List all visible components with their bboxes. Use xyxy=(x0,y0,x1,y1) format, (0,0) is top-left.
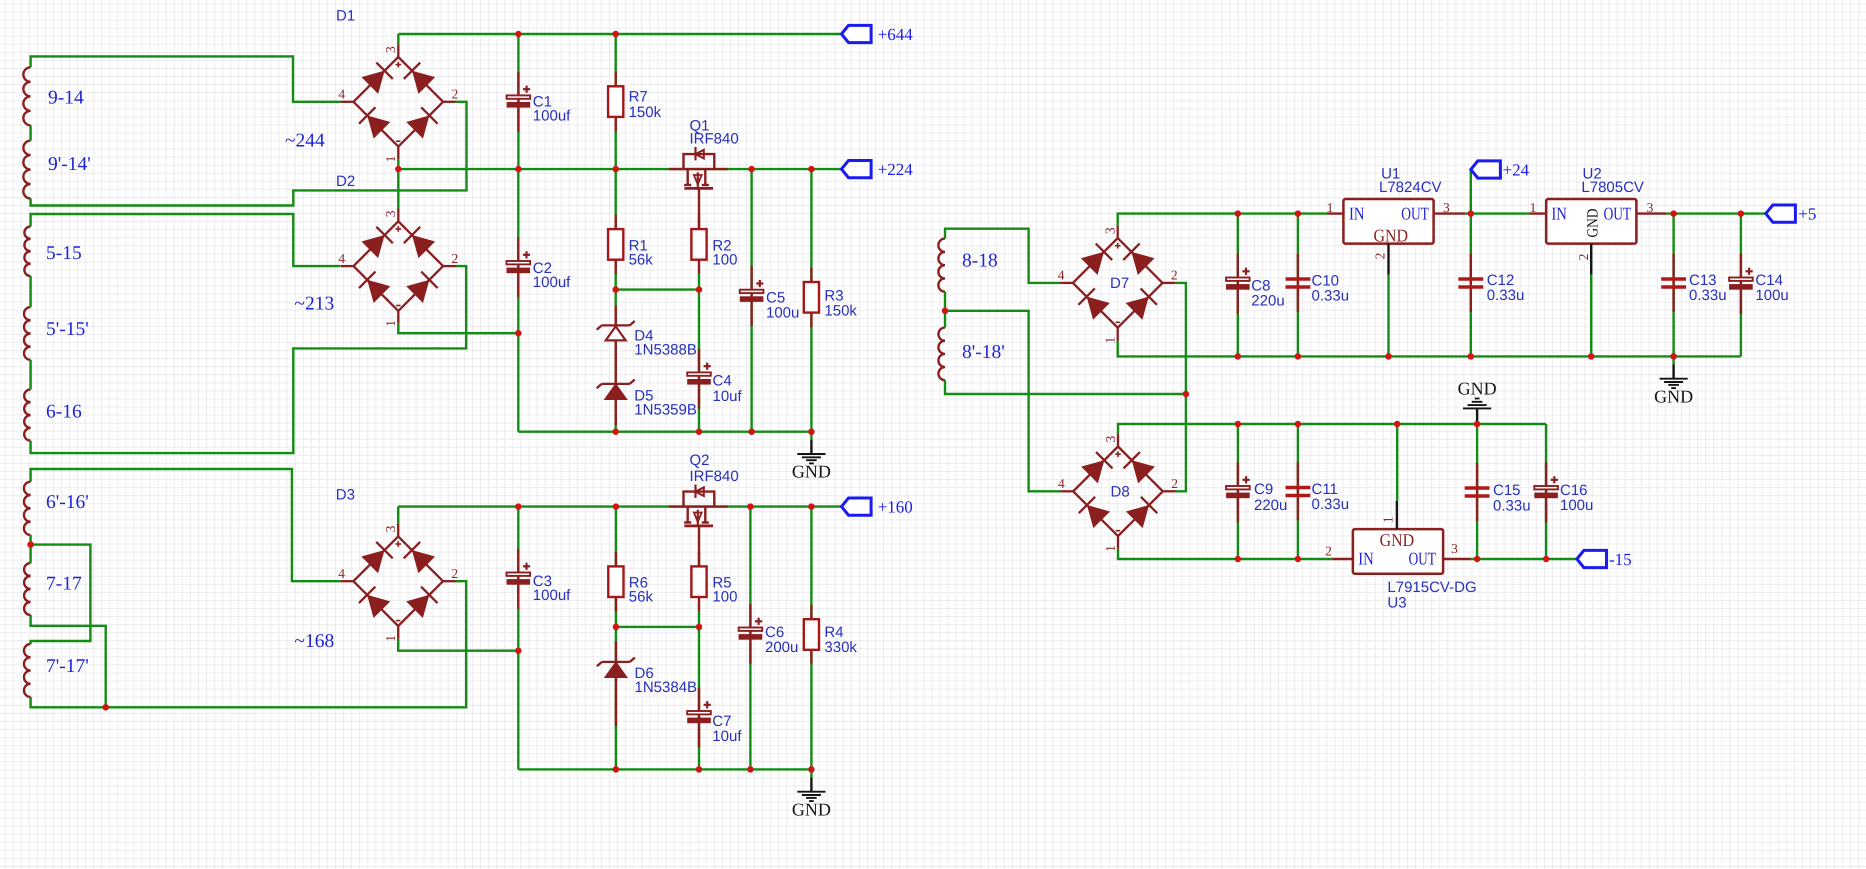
svg-text:100u: 100u xyxy=(766,305,799,322)
svg-text:4: 4 xyxy=(338,566,345,581)
wire R6/R5 junction link xyxy=(616,626,699,628)
svg-text:1: 1 xyxy=(1327,200,1334,215)
capacitor C9 xyxy=(1226,462,1287,522)
wire 6'-16' top to D3 pin4 xyxy=(31,469,341,581)
svg-text:330k: 330k xyxy=(824,639,857,656)
GND rail upper section xyxy=(518,431,811,433)
zener D6 1N5384B xyxy=(597,658,697,696)
+224 rail xyxy=(398,168,841,170)
svg-text:U3: U3 xyxy=(1387,595,1406,612)
svg-text:GND: GND xyxy=(1584,209,1601,238)
svg-text:D8: D8 xyxy=(1111,484,1130,501)
wire +224 to D2 pin3 xyxy=(397,169,399,208)
junction C6 top xyxy=(747,503,754,510)
svg-text:8-18: 8-18 xyxy=(962,251,998,272)
svg-text:2: 2 xyxy=(1325,544,1332,559)
svg-text:4: 4 xyxy=(1058,476,1065,491)
wire C9 column xyxy=(1237,424,1239,559)
winding 7'-17' xyxy=(24,644,89,697)
bridge rectifier D7 xyxy=(1058,225,1178,343)
svg-text:IN: IN xyxy=(1551,203,1567,223)
junction U1 gnd xyxy=(1385,353,1392,360)
junction R1 bottom xyxy=(612,286,619,293)
transistor Q1 IRF840 xyxy=(669,118,739,189)
power flag -15 xyxy=(1577,550,1632,569)
resistor R4 xyxy=(804,605,858,665)
svg-text:~168: ~168 xyxy=(294,631,334,652)
wire C7 column xyxy=(698,627,700,770)
junction C11 bottom xyxy=(1295,556,1302,563)
svg-text:0.33u: 0.33u xyxy=(1312,288,1350,305)
capacitor C4 xyxy=(687,349,742,409)
svg-text:4: 4 xyxy=(1058,268,1065,283)
wire C10 column xyxy=(1297,214,1299,357)
svg-text:3: 3 xyxy=(1103,435,1118,442)
resistor R3 xyxy=(804,268,858,328)
winding 9-14 (T1 primary section) xyxy=(23,67,84,125)
junction C13 top xyxy=(1670,210,1677,217)
junction C8 bottom xyxy=(1235,353,1242,360)
capacitor C13 xyxy=(1661,254,1726,312)
junction C5 top xyxy=(748,166,755,173)
junction D3 pin1 / C3 xyxy=(515,647,522,654)
svg-text:220u: 220u xyxy=(1251,293,1284,310)
wire C13 column xyxy=(1672,214,1674,357)
svg-text:OUT: OUT xyxy=(1401,203,1429,223)
capacitor C16 xyxy=(1534,462,1593,522)
junction R5 bottom xyxy=(696,624,703,631)
svg-text:1: 1 xyxy=(1530,200,1537,215)
wire C6 column xyxy=(749,507,751,770)
wire U3 gnd riser xyxy=(1396,424,1398,501)
svg-text:~244: ~244 xyxy=(285,131,325,152)
svg-text:2: 2 xyxy=(452,251,459,266)
svg-text:3: 3 xyxy=(1451,541,1458,556)
svg-text:+160: +160 xyxy=(878,497,913,516)
wire C8 column xyxy=(1237,214,1239,357)
bridge rectifier D3 xyxy=(336,487,458,642)
wire C16 column xyxy=(1545,424,1547,559)
wire R5 to junction xyxy=(698,612,700,627)
zener D5 1N5359B xyxy=(597,380,697,419)
resistor R7 xyxy=(608,72,662,132)
junction C15 bottom xyxy=(1474,556,1481,563)
wire D6 pins xyxy=(615,641,617,726)
capacitor C11 xyxy=(1286,462,1350,520)
svg-text:100: 100 xyxy=(712,589,737,606)
svg-text:3: 3 xyxy=(1103,227,1118,234)
svg-text:1: 1 xyxy=(383,156,398,163)
wire D3 pin3 to +160 rail xyxy=(397,507,399,524)
junction C13 bottom xyxy=(1670,353,1677,360)
junction R7 top xyxy=(612,31,619,38)
junction R4 top xyxy=(808,503,815,510)
svg-text:1N5359B: 1N5359B xyxy=(634,402,697,419)
svg-text:220u: 220u xyxy=(1254,497,1287,514)
bridge rectifier D8 xyxy=(1058,434,1178,552)
svg-text:IN: IN xyxy=(1349,203,1365,223)
wire 6-16 bottom to D2 pin2 xyxy=(31,266,467,453)
winding 6'-16' xyxy=(24,482,89,535)
svg-text:+24: +24 xyxy=(1503,160,1530,179)
winding 7-17 xyxy=(24,563,82,615)
svg-text:2: 2 xyxy=(1171,476,1178,491)
winding 9'-14' xyxy=(23,141,90,199)
wire C15 column xyxy=(1476,424,1478,559)
wire between 5'-15' and 6-16 xyxy=(29,360,31,390)
wire D6 column xyxy=(615,627,617,770)
svg-text:3: 3 xyxy=(383,210,398,217)
wire D1 pin1 to +224 rail xyxy=(397,159,399,169)
svg-text:8'-18': 8'-18' xyxy=(962,342,1005,363)
wire D1 pin3 to +644 rail xyxy=(397,34,399,44)
junction C10 top xyxy=(1295,210,1302,217)
svg-text:2: 2 xyxy=(1576,254,1591,261)
capacitor C6 xyxy=(739,604,799,664)
junction transformer tap xyxy=(942,308,949,315)
wire C3 column xyxy=(517,507,519,770)
svg-text:+5: +5 xyxy=(1798,204,1816,223)
svg-text:100: 100 xyxy=(712,251,737,268)
svg-text:L7915CV-DG: L7915CV-DG xyxy=(1387,579,1476,596)
junction C6 bottom xyxy=(747,766,754,773)
svg-text:D3: D3 xyxy=(336,487,355,504)
svg-text:IRF840: IRF840 xyxy=(690,131,739,148)
svg-text:200u: 200u xyxy=(765,639,798,656)
svg-text:4: 4 xyxy=(338,87,345,102)
wire D7 pin3 to input rail xyxy=(1118,214,1327,226)
wire 8-18 top to D7 pin4 xyxy=(945,229,1060,283)
power flag +160 xyxy=(842,497,913,516)
wire R1 column xyxy=(615,169,617,290)
winding 5-15 xyxy=(24,226,81,276)
winding 8-18 xyxy=(938,239,997,292)
wire +24 riser xyxy=(1470,170,1472,214)
capacitor C5 xyxy=(740,266,800,326)
capacitor C14 xyxy=(1729,254,1789,314)
net label ~213 xyxy=(294,294,334,315)
bridge rectifier D1 xyxy=(336,8,458,163)
power flag +5 xyxy=(1766,204,1817,223)
wire R6 column xyxy=(615,507,617,627)
junction R6 top xyxy=(613,503,620,510)
svg-text:R7: R7 xyxy=(629,88,648,105)
svg-text:L7805CV: L7805CV xyxy=(1581,179,1644,196)
junction +24 node xyxy=(1468,210,1475,217)
wire D4 D5 column xyxy=(615,290,617,432)
wire D8 pin2 up xyxy=(1176,394,1186,491)
wire D8 pin1 to -15 rail xyxy=(1118,549,1332,559)
svg-text:1: 1 xyxy=(383,635,398,642)
regulator U1 L7824CV xyxy=(1327,165,1466,274)
junction C5 bottom xyxy=(748,428,755,435)
junction D1 pin1 xyxy=(395,166,402,173)
svg-text:56k: 56k xyxy=(629,251,654,268)
junction U3 gnd top xyxy=(1394,421,1401,428)
junction C12 bottom xyxy=(1468,353,1475,360)
wire D3 pin1 to C3 column xyxy=(398,639,518,651)
wire Q2 gate to R5 xyxy=(698,526,700,567)
svg-text:D1: D1 xyxy=(336,8,355,25)
svg-text:7'-17': 7'-17' xyxy=(46,656,89,677)
wire C2 column xyxy=(517,169,519,432)
svg-text:C15: C15 xyxy=(1493,482,1521,499)
junction D5 bottom xyxy=(612,428,619,435)
svg-text:3: 3 xyxy=(383,525,398,532)
svg-text:150k: 150k xyxy=(824,303,857,320)
wire 7-17 bottom to bottom return xyxy=(31,615,106,707)
svg-text:10uf: 10uf xyxy=(713,388,743,405)
junction D2 pin1 / C2 xyxy=(515,330,522,337)
wire C4 column xyxy=(698,290,700,432)
winding 8'-18' xyxy=(938,328,1004,381)
wire R3 column xyxy=(810,169,812,432)
resistor R2 xyxy=(691,215,737,275)
junction C1 bottom xyxy=(515,166,522,173)
wire R7 column xyxy=(615,34,617,169)
svg-text:10uf: 10uf xyxy=(712,728,742,745)
svg-text:9-14: 9-14 xyxy=(48,88,84,109)
wire 8'-18' bottom xyxy=(945,380,1186,394)
svg-text:5-15: 5-15 xyxy=(46,243,82,264)
junction R3 bottom xyxy=(808,428,815,435)
winding 5'-15' xyxy=(24,307,89,360)
svg-text:2: 2 xyxy=(1373,253,1388,260)
wire Q1 gate to R2 xyxy=(698,188,700,229)
svg-text:+224: +224 xyxy=(878,160,914,179)
svg-text:2: 2 xyxy=(451,566,458,581)
winding 6-16 xyxy=(24,389,82,440)
capacitor C10 xyxy=(1286,254,1350,312)
svg-text:GND: GND xyxy=(1654,386,1693,406)
svg-text:D2: D2 xyxy=(336,173,355,190)
svg-text:1: 1 xyxy=(383,320,398,327)
+644 rail xyxy=(398,33,841,35)
svg-text:3: 3 xyxy=(383,46,398,53)
wire 5-15 top to D2 pin4 xyxy=(31,214,341,266)
svg-text:1N5388B: 1N5388B xyxy=(634,341,697,358)
regulator U2 L7805CV xyxy=(1530,165,1667,274)
junction R3 top xyxy=(808,166,815,173)
junction C3 top xyxy=(515,503,522,510)
svg-text:L7824CV: L7824CV xyxy=(1379,179,1442,196)
ground GND (inverted above rail) xyxy=(1458,378,1497,424)
junction C9 top xyxy=(1235,421,1242,428)
junction 6'-16'/7-17 tap xyxy=(27,541,33,548)
junction R4 bottom xyxy=(808,766,815,773)
svg-text:6'-16': 6'-16' xyxy=(46,492,89,513)
svg-text:C9: C9 xyxy=(1254,481,1273,498)
capacitor C15 xyxy=(1465,463,1531,521)
wire R4 column xyxy=(810,507,812,770)
svg-text:GND: GND xyxy=(1374,225,1409,245)
junction bottom return xyxy=(102,704,109,711)
ground GND (upper left section) xyxy=(792,432,831,482)
svg-text:~213: ~213 xyxy=(294,294,334,315)
wire U2 out rail to +5 xyxy=(1666,212,1765,214)
junction D6 bottom xyxy=(613,766,620,773)
bridge rectifier D2 xyxy=(336,173,458,327)
svg-text:0.33u: 0.33u xyxy=(1487,287,1525,304)
wire tap to 7-17 top xyxy=(29,545,31,563)
net label ~168 xyxy=(294,631,334,652)
resistor R6 xyxy=(608,552,653,612)
svg-text:3: 3 xyxy=(1647,200,1654,215)
capacitor C1 xyxy=(507,72,572,132)
capacitor C12 xyxy=(1458,254,1524,312)
wire tap to 8'-18' top xyxy=(944,311,946,328)
GND rail lower section xyxy=(518,768,811,770)
svg-text:1: 1 xyxy=(1103,337,1118,344)
svg-text:100uf: 100uf xyxy=(533,587,571,604)
junction C7 bottom xyxy=(696,766,703,773)
capacitor C2 xyxy=(507,237,572,297)
junction U2 gnd xyxy=(1588,353,1595,360)
junction C16 bottom xyxy=(1543,556,1550,563)
svg-text:100u: 100u xyxy=(1560,497,1593,514)
wire 6'-16' bottom to node tap xyxy=(29,535,31,545)
svg-text:GND: GND xyxy=(1458,378,1497,398)
junction R6 bottom xyxy=(613,624,620,631)
junction C9 bottom xyxy=(1235,556,1242,563)
wire D7 pin2 down xyxy=(1175,283,1186,394)
ground GND (right of U2) xyxy=(1654,356,1693,406)
wire U2 gnd pin down xyxy=(1590,275,1592,357)
svg-text:7-17: 7-17 xyxy=(46,574,82,595)
wire D7 pin1 to gnd rail xyxy=(1118,341,1741,357)
svg-text:1: 1 xyxy=(1380,516,1395,523)
zener D4 1N5388B xyxy=(597,321,697,358)
svg-text:+644: +644 xyxy=(878,25,914,44)
wire D2 pin1 to C2 column xyxy=(398,324,518,334)
wire tap to 7'-17' top xyxy=(31,545,91,644)
svg-text:0.33u: 0.33u xyxy=(1493,498,1531,515)
svg-text:-15: -15 xyxy=(1609,550,1632,569)
resistor R1 xyxy=(608,215,653,275)
junction C8 top xyxy=(1235,210,1242,217)
power flag +24 xyxy=(1471,160,1530,179)
wire between 9-14 and 9'-14' xyxy=(29,125,31,140)
svg-text:5'-15': 5'-15' xyxy=(46,319,89,340)
svg-text:100uf: 100uf xyxy=(533,107,571,124)
svg-text:1: 1 xyxy=(1103,545,1118,552)
svg-text:2: 2 xyxy=(452,87,459,102)
svg-text:IRF840: IRF840 xyxy=(690,468,739,485)
wire 9-14 top to D1 pin4 xyxy=(31,56,341,101)
wire tap to D8 pin4 xyxy=(945,311,1060,492)
svg-text:100uf: 100uf xyxy=(533,274,571,291)
svg-text:4: 4 xyxy=(338,251,345,266)
wire zener pins xyxy=(615,306,617,425)
capacitor C8 xyxy=(1226,254,1285,314)
svg-text:GND: GND xyxy=(792,462,831,482)
junction C15 top xyxy=(1474,421,1481,428)
wire U1 gnd pin down xyxy=(1387,275,1389,357)
wire 7'-17' bottom rail to D3 pin2 xyxy=(31,581,467,707)
wire U1 out to U2 in xyxy=(1466,212,1530,214)
wire C5 column xyxy=(750,169,752,432)
svg-text:GND: GND xyxy=(1380,530,1415,550)
svg-text:56k: 56k xyxy=(629,589,654,606)
junction C10 bottom xyxy=(1295,353,1302,360)
svg-text:1N5384B: 1N5384B xyxy=(635,679,698,696)
wire D8 pin3 to minus input rail xyxy=(1118,424,1546,434)
transistor Q2 IRF840 xyxy=(669,452,739,526)
junction R7 bottom xyxy=(612,166,619,173)
svg-text:3: 3 xyxy=(1443,200,1450,215)
svg-text:OUT: OUT xyxy=(1604,203,1632,223)
ground GND (lower left section) xyxy=(792,769,831,819)
svg-text:Q2: Q2 xyxy=(690,452,710,469)
wire R1/R2 junction link xyxy=(616,288,699,290)
capacitor C3 xyxy=(507,549,572,609)
junction C11 top xyxy=(1295,421,1302,428)
wire 9'-14' bottom to D1 pin2 xyxy=(31,102,467,206)
power flag +224 xyxy=(842,160,914,179)
svg-text:6-16: 6-16 xyxy=(46,401,82,422)
regulator U3 L7915CV-DG xyxy=(1325,501,1476,612)
svg-text:100u: 100u xyxy=(1755,287,1788,304)
wire C14 column xyxy=(1740,214,1742,357)
junction C4 bottom xyxy=(696,428,703,435)
junction R2 bottom xyxy=(696,286,703,293)
svg-text:D7: D7 xyxy=(1110,275,1129,292)
net label ~244 xyxy=(285,131,325,152)
power flag +644 xyxy=(842,25,914,44)
capacitor C7 xyxy=(687,687,742,747)
wire C12 column xyxy=(1470,214,1472,357)
wire between 5-15 and 5'-15' xyxy=(29,276,31,307)
wire R2 to junction xyxy=(698,274,700,289)
svg-text:IN: IN xyxy=(1358,549,1374,569)
svg-text:150k: 150k xyxy=(629,104,662,121)
svg-text:OUT: OUT xyxy=(1409,549,1436,569)
resistor R5 xyxy=(691,552,737,612)
junction C14 top xyxy=(1738,210,1745,217)
wire C1 column xyxy=(517,34,519,169)
junction C1 top xyxy=(515,31,522,38)
svg-text:GND: GND xyxy=(792,799,831,819)
svg-text:2: 2 xyxy=(1171,268,1178,283)
svg-text:0.33u: 0.33u xyxy=(1312,496,1350,513)
svg-text:9'-14': 9'-14' xyxy=(48,154,91,175)
wire C11 column xyxy=(1297,424,1299,559)
junction winding return xyxy=(1183,391,1190,398)
wire 8-18 bottom to tap xyxy=(944,292,946,311)
+160 rail xyxy=(398,505,841,507)
svg-text:0.33u: 0.33u xyxy=(1689,287,1727,304)
wire U3 out to -15 xyxy=(1471,558,1577,560)
